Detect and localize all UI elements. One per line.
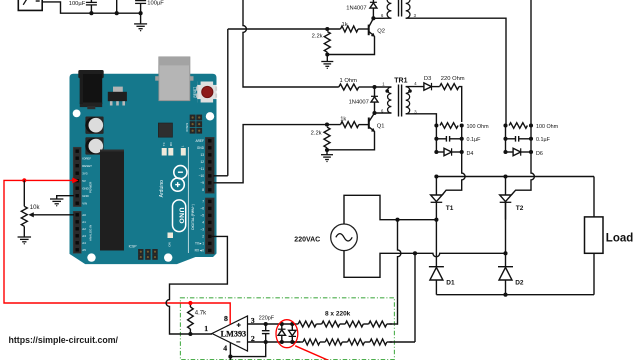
svg-text:~11: ~11 (199, 167, 204, 171)
svg-text:100 Ohm: 100 Ohm (467, 124, 490, 130)
svg-text:1: 1 (204, 324, 208, 333)
svg-text:ICSP: ICSP (129, 244, 138, 248)
svg-text:AREF: AREF (195, 139, 204, 143)
svg-text:220pF: 220pF (259, 316, 275, 322)
svg-text:ICSP2: ICSP2 (185, 122, 189, 131)
svg-text:10k: 10k (30, 205, 41, 211)
svg-text:3V3: 3V3 (82, 171, 88, 175)
svg-text:4.7k: 4.7k (195, 310, 207, 316)
svg-text:220 Ohm: 220 Ohm (441, 76, 465, 82)
svg-text:1 Ohm: 1 Ohm (340, 78, 358, 84)
svg-text:8: 8 (202, 188, 204, 192)
svg-text:0.1µF: 0.1µF (467, 137, 482, 143)
svg-text:RESET: RESET (193, 87, 197, 98)
svg-text:T1: T1 (446, 205, 454, 212)
svg-text:0.1µF: 0.1µF (536, 137, 551, 143)
svg-text:~9: ~9 (200, 181, 204, 185)
svg-text:2: 2 (202, 235, 204, 239)
svg-text:100µF: 100µF (69, 1, 86, 7)
svg-text:1N4007: 1N4007 (349, 100, 369, 106)
svg-text:RX: RX (169, 142, 173, 146)
svg-text:LM393: LM393 (221, 329, 246, 338)
svg-text:~10: ~10 (199, 174, 205, 178)
svg-text:2.2k: 2.2k (312, 34, 323, 40)
svg-text:A5: A5 (82, 248, 86, 252)
svg-text:D1: D1 (446, 280, 455, 287)
svg-text:VIN: VIN (82, 201, 87, 205)
svg-text:DIGITAL (PWM~): DIGITAL (PWM~) (191, 204, 195, 230)
svg-text:TX: TX (162, 142, 166, 146)
svg-text:POWER: POWER (89, 181, 93, 193)
svg-text:A4: A4 (82, 241, 86, 245)
svg-text:TX►1: TX►1 (195, 242, 204, 246)
svg-text:5V: 5V (82, 179, 86, 183)
svg-text:8: 8 (224, 314, 228, 323)
svg-text:D6: D6 (536, 151, 543, 157)
svg-text:100 Ohm: 100 Ohm (536, 124, 559, 130)
svg-text:GND: GND (197, 146, 205, 150)
svg-text:8 x 220k: 8 x 220k (325, 310, 351, 317)
svg-text:Q2: Q2 (377, 29, 385, 35)
svg-text:Q1: Q1 (377, 124, 385, 130)
svg-text:Load: Load (606, 232, 633, 244)
svg-text:GND: GND (82, 194, 88, 198)
svg-text:100µF: 100µF (147, 1, 164, 7)
svg-text:2.2k: 2.2k (311, 131, 322, 137)
svg-text:4: 4 (223, 343, 227, 352)
svg-text:D3: D3 (424, 76, 431, 82)
svg-text:~6: ~6 (200, 207, 204, 211)
svg-text:12: 12 (200, 160, 204, 164)
svg-text:D2: D2 (515, 280, 524, 287)
svg-text:RESET: RESET (82, 164, 92, 168)
svg-text:ANALOG IN: ANALOG IN (89, 225, 93, 241)
svg-text:TR1: TR1 (394, 78, 407, 85)
svg-text:A0: A0 (82, 213, 86, 217)
svg-text:https://simple-circuit.com/: https://simple-circuit.com/ (9, 335, 119, 345)
svg-text:4: 4 (202, 221, 204, 225)
svg-text:~5: ~5 (200, 214, 204, 218)
svg-text:220VAC: 220VAC (294, 236, 320, 243)
svg-text:13: 13 (200, 153, 204, 157)
svg-text:A2: A2 (82, 227, 86, 231)
svg-text:D4: D4 (467, 151, 474, 157)
svg-text:1k: 1k (340, 117, 346, 123)
svg-text:A3: A3 (82, 234, 86, 238)
svg-text:Arduino: Arduino (159, 180, 165, 197)
svg-text:T2: T2 (516, 205, 524, 212)
svg-text:ON: ON (167, 242, 171, 247)
svg-text:1N4007: 1N4007 (346, 5, 366, 11)
svg-text:UNO: UNO (177, 207, 184, 224)
svg-text:~3: ~3 (200, 228, 204, 232)
svg-text:7: 7 (202, 200, 204, 204)
svg-text:RX◄0: RX◄0 (195, 249, 205, 253)
svg-text:A1: A1 (82, 220, 86, 224)
svg-text:1k: 1k (342, 22, 348, 28)
svg-text:IOREF: IOREF (82, 156, 91, 160)
